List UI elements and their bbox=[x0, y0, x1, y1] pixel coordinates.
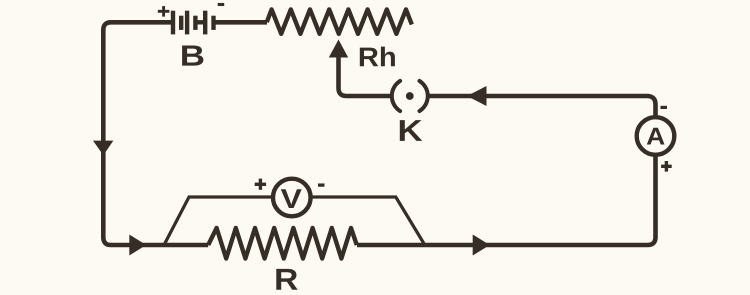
battery + polarity bbox=[158, 6, 170, 17]
wire: voltmeter branch right (voltmeter down to node on bottom wire) bbox=[312, 197, 425, 245]
battery - polarity bbox=[218, 3, 225, 6]
wire: left loop (battery + terminal, left rail, bottom-left run to resistor R) bbox=[103, 22, 208, 245]
ammeter A bbox=[637, 117, 675, 155]
label R bbox=[276, 269, 297, 290]
voltmeter + polarity bbox=[255, 179, 266, 190]
ammeter - polarity bbox=[661, 106, 668, 109]
current arrow (right) on bottom-right wire bbox=[473, 235, 490, 256]
voltmeter V bbox=[273, 179, 311, 217]
wire: wiper down to key K bbox=[339, 54, 392, 96]
current arrow (left) on top-right wire bbox=[467, 86, 487, 106]
label K bbox=[400, 120, 423, 141]
wire: key K to ammeter A (top right run) bbox=[428, 96, 655, 117]
rheostat Rh zigzag bbox=[267, 9, 412, 33]
label Rh bbox=[360, 47, 395, 67]
wire: ammeter down and bottom-right run to resistor R bbox=[357, 155, 656, 245]
key K (plug key symbol: two arcs and centre dot) bbox=[392, 81, 428, 111]
label B bbox=[182, 46, 203, 66]
wire: voltmeter branch left (node on bottom wire up to voltmeter) bbox=[164, 197, 272, 245]
resistor R zigzag bbox=[208, 228, 357, 259]
current arrow (down) on left rail bbox=[93, 141, 113, 156]
current arrow (right) on bottom-left wire bbox=[129, 235, 146, 256]
battery B plates bbox=[173, 11, 214, 35]
voltmeter - polarity bbox=[318, 183, 325, 186]
rheostat wiper arrowhead (up) bbox=[329, 40, 348, 58]
ammeter + polarity bbox=[661, 161, 672, 172]
wire: battery - terminal to rheostat bbox=[214, 20, 268, 25]
